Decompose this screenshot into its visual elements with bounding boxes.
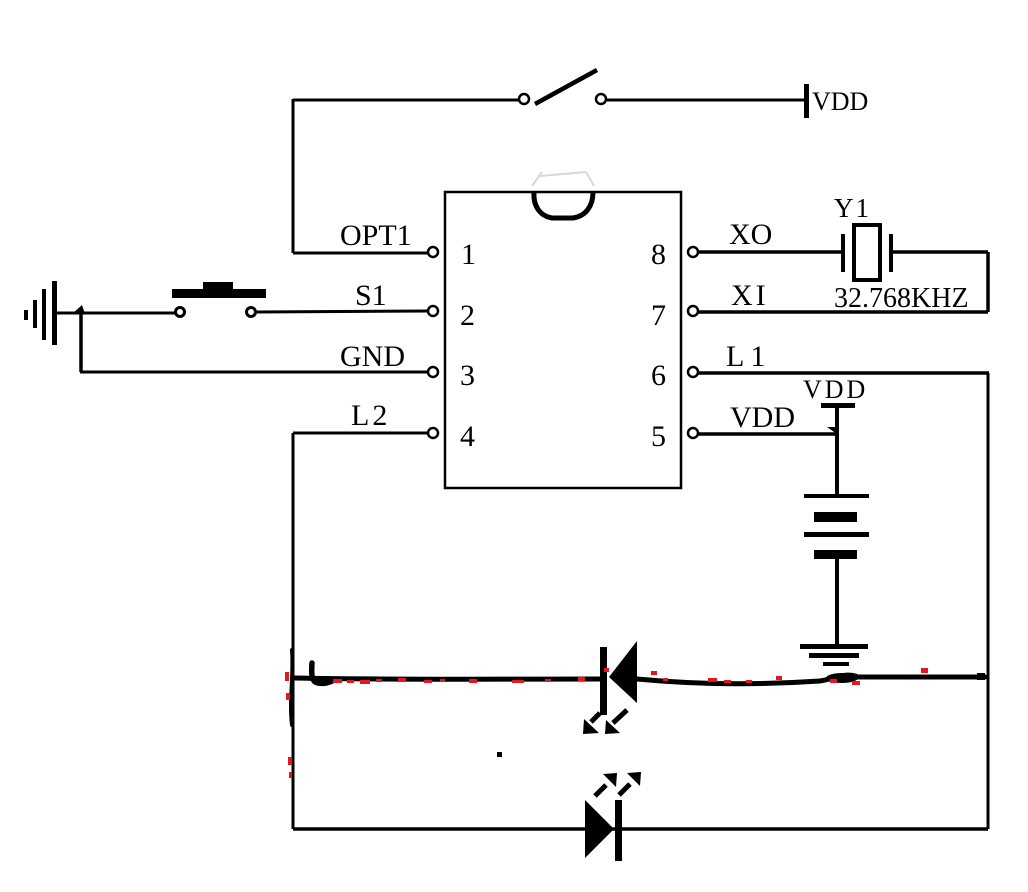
IC U1 notch bbox=[534, 192, 593, 218]
push button S1 bbox=[172, 282, 266, 317]
LED D2 emission arrows bbox=[595, 772, 641, 796]
svg-text:2: 2 bbox=[460, 299, 475, 332]
wire: switch to VDD terminal bbox=[607, 99, 805, 102]
power terminal bar VDD (top) bbox=[804, 84, 809, 118]
power terminal bar VDD (battery) bbox=[821, 403, 855, 408]
wire: junction down to battery bbox=[835, 434, 839, 495]
LED D1 emission arrows bbox=[583, 710, 627, 734]
wire: blob under battery ground bbox=[826, 673, 858, 683]
wire: pin 5 to battery junction bbox=[698, 432, 838, 436]
junction: ground / S1 / GND net bbox=[72, 305, 85, 314]
wire: hook at left end of hand-drawn wire bbox=[312, 663, 332, 683]
svg-text:VDD: VDD bbox=[803, 375, 868, 404]
wire: bottom horizontal bbox=[293, 827, 988, 831]
wire: left vertical from pin4 down bbox=[292, 433, 295, 829]
wire: ground to push button S1 bbox=[57, 312, 175, 315]
stray ink dot bbox=[497, 752, 502, 757]
wire: battery to ground bbox=[835, 559, 839, 646]
switch SW1 (SPST, open) bbox=[519, 70, 606, 104]
red ink speckles along hand-drawn wire bbox=[285, 668, 928, 778]
wire: right vertical bbox=[987, 373, 990, 829]
svg-text:L1: L1 bbox=[726, 340, 765, 373]
pin 3 circle bbox=[428, 367, 438, 377]
pin 7 circle bbox=[688, 306, 698, 316]
wire: VDD bar to junction bbox=[835, 406, 839, 434]
wire: pin 6 L1 to right vertical bbox=[698, 371, 989, 375]
svg-text:7: 7 bbox=[651, 299, 666, 332]
wire: button to pin 2 bbox=[257, 311, 428, 312]
svg-text:XO: XO bbox=[729, 218, 772, 251]
wire: top LED wire (hand drawn) left part bbox=[294, 678, 600, 679]
svg-text:GND: GND bbox=[340, 340, 405, 373]
junction: VDD node bbox=[827, 427, 837, 434]
wire: crystal to right bbox=[893, 250, 988, 254]
svg-text:VDD: VDD bbox=[730, 401, 795, 434]
pin 4 circle bbox=[428, 428, 438, 438]
pin 2 circle bbox=[428, 306, 438, 316]
wire: top LED wire (hand drawn) right part bbox=[637, 675, 985, 684]
wire: pin 7 XI bbox=[698, 310, 988, 314]
wire: top-left vertical down to pin 1 (OPT1) bbox=[292, 99, 295, 253]
svg-text:S1: S1 bbox=[355, 279, 387, 312]
crystal Y1 bbox=[841, 225, 893, 280]
pin 6 circle bbox=[688, 367, 698, 377]
wire: top horizontal from left vertical to switch bbox=[293, 99, 519, 102]
svg-text:3: 3 bbox=[460, 359, 475, 392]
battery BT1 bbox=[804, 494, 869, 559]
svg-text:VDD: VDD bbox=[812, 87, 868, 116]
svg-text:1: 1 bbox=[461, 238, 476, 271]
ground symbol (left) bbox=[24, 281, 57, 345]
ground symbol (battery) bbox=[800, 644, 868, 666]
LED D1 (top, pointing left) bbox=[600, 641, 637, 716]
svg-text:L2: L2 bbox=[351, 399, 387, 432]
pin 8 circle bbox=[688, 247, 698, 257]
wire: GND rail to pin 3 bbox=[80, 371, 428, 374]
wire: pin 8 to crystal bbox=[698, 250, 842, 254]
svg-text:5: 5 bbox=[651, 420, 666, 453]
LED D2 (bottom, pointing right) bbox=[585, 800, 622, 861]
IC U1 (8-pin DIP) body bbox=[445, 192, 681, 488]
svg-text:32.768KHZ: 32.768KHZ bbox=[834, 283, 969, 314]
pin 1 circle bbox=[428, 247, 438, 257]
svg-text:XI: XI bbox=[731, 279, 766, 312]
pin 5 circle bbox=[688, 428, 698, 438]
junction: top-right corner dot bbox=[977, 673, 985, 680]
svg-text:6: 6 bbox=[651, 359, 666, 392]
svg-text:Y1: Y1 bbox=[834, 193, 869, 223]
wire: junction down to GND rail bbox=[79, 313, 83, 372]
svg-text:8: 8 bbox=[651, 238, 666, 271]
wire: pin 4 to left vertical bbox=[293, 432, 428, 435]
wire: hand-drawn wobble on left vertical bbox=[291, 650, 292, 725]
svg-text:OPT1: OPT1 bbox=[340, 219, 412, 252]
wire: pin 1 OPT1 bbox=[293, 252, 428, 255]
wire: crystal right vertical bbox=[986, 252, 990, 312]
svg-text:4: 4 bbox=[460, 420, 475, 453]
